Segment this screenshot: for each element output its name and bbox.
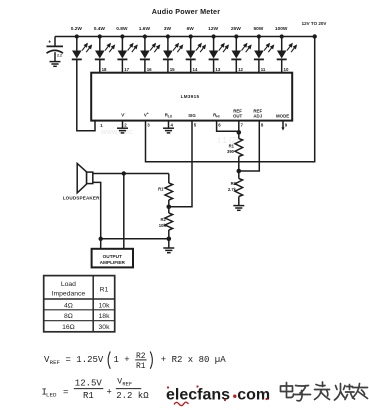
svg-text:8: 8 (261, 123, 264, 128)
wire LED1 cathode to pin 1 (77, 60, 95, 131)
watermark chinese text dian zi fa shao you (281, 382, 368, 401)
pin 7 REF OUT (233, 108, 244, 133)
LED D7 (12W) (208, 26, 228, 73)
svg-text:15: 15 (170, 67, 175, 72)
svg-text:10: 10 (284, 67, 289, 72)
wire V+ supply rail to pin 3 (146, 37, 315, 162)
LED D9 (50W) (253, 26, 273, 73)
svg-text:Load: Load (61, 281, 76, 288)
svg-text:SIG: SIG (188, 113, 196, 118)
svg-text:8Ω: 8Ω (64, 313, 73, 320)
LED D3 (0.8W) (116, 26, 137, 73)
svg-text:16: 16 (147, 67, 152, 72)
formula ILED value label (42, 377, 150, 401)
junction pin 7 node (237, 130, 242, 135)
svg-text:OUTPUT: OUTPUT (103, 254, 122, 259)
wire SIG pin 5 to divider node (169, 121, 192, 207)
resistor R1 390 (227, 133, 243, 171)
pin 6 RHI (213, 112, 221, 127)
wire speaker hot to divider R1 (93, 173, 169, 175)
capacitor C1 2.2uF bypass (47, 37, 64, 62)
svg-text:OUT: OUT (233, 114, 243, 119)
svg-text:18k: 18k (99, 313, 111, 320)
LED D4 (1.6W) (139, 26, 160, 73)
svg-text:LED: LED (46, 392, 57, 399)
svg-text:7: 7 (241, 123, 244, 128)
svg-text:0.2W: 0.2W (71, 26, 83, 32)
LED D5 (3W) (163, 26, 183, 73)
svg-text:www.elec: www.elec (100, 127, 133, 136)
svg-text:R2: R2 (231, 181, 237, 186)
svg-text:=: = (63, 387, 68, 397)
ground capacitor C1 (50, 62, 61, 67)
junction divider node to SIG (167, 205, 172, 210)
svg-text:2.7k: 2.7k (228, 187, 237, 192)
svg-text:MODE: MODE (276, 114, 289, 119)
svg-text:+: + (48, 40, 51, 46)
svg-text:+ R2 x 80 µA: + R2 x 80 µA (161, 355, 226, 365)
svg-text:R2: R2 (160, 217, 166, 222)
wire RHI pin 6 to REF OUT (217, 121, 239, 132)
svg-text:REF: REF (50, 359, 61, 366)
IC U1 LM3915 dot/bar display driver (91, 73, 292, 121)
svg-text:ADJ: ADJ (253, 114, 262, 119)
svg-text:Impedance: Impedance (52, 290, 86, 297)
pin 8 REF ADJ (253, 108, 263, 127)
svg-text:10k: 10k (99, 302, 111, 309)
svg-text:12: 12 (238, 67, 243, 72)
wire LED anode supply rail (55, 36, 315, 38)
table load impedance / R1 (44, 276, 115, 332)
resistor R2 2.7k (228, 171, 243, 205)
svg-text:4: 4 (171, 123, 174, 128)
svg-text:6: 6 (218, 123, 221, 128)
svg-text:LOUDSPEAKER: LOUDSPEAKER (63, 196, 100, 201)
svg-text:REF: REF (122, 381, 132, 387)
wire speaker low side to ground bus (93, 182, 101, 238)
svg-text:AMPLIFIER: AMPLIFIER (100, 260, 126, 265)
LED D10 (100W) (275, 26, 296, 73)
ground R2 2.7k (233, 206, 244, 211)
svg-text:100W: 100W (275, 26, 288, 32)
svg-text:2.2 kΩ: 2.2 kΩ (116, 391, 149, 401)
ground pin 4 (163, 128, 174, 133)
svg-text:com: com (237, 386, 270, 403)
svg-text:10k: 10k (159, 223, 167, 228)
svg-text:16Ω: 16Ω (62, 324, 75, 331)
pin 5 SIG (188, 113, 196, 128)
svg-text:2.2: 2.2 (57, 54, 62, 58)
svg-text:elecfans: elecfans (166, 386, 230, 403)
svg-text:R1: R1 (83, 391, 94, 401)
pin 4 RLO (165, 112, 174, 127)
svg-text:Audio Power Meter: Audio Power Meter (152, 7, 221, 16)
wire ground bus amp to R2 (101, 238, 169, 240)
pin 9 MODE (276, 114, 289, 131)
svg-text:= 1.25V: = 1.25V (66, 355, 104, 365)
svg-text:17: 17 (124, 67, 129, 72)
svg-text:390: 390 (227, 149, 235, 154)
svg-text:0.8W: 0.8W (116, 26, 128, 32)
svg-text:R1: R1 (136, 362, 146, 371)
svg-text:12W: 12W (208, 26, 218, 32)
svg-text:13: 13 (215, 67, 220, 72)
svg-text:14: 14 (193, 67, 198, 72)
ground R2 10k (163, 248, 174, 253)
svg-text:t 1 (2): t 1 (2) (218, 136, 239, 145)
faint watermark ghost center (100, 127, 239, 145)
svg-text:18: 18 (102, 67, 107, 72)
svg-text:12V TO 20V: 12V TO 20V (302, 21, 327, 26)
junction supply rail top (313, 34, 317, 38)
svg-text:3W: 3W (164, 26, 172, 32)
svg-text:R1: R1 (158, 186, 164, 191)
wire REF ADJ pin 8 to R1/R2 node (239, 121, 259, 171)
pin 2 V- (121, 112, 127, 128)
LED D1 (0.2W) (71, 26, 92, 60)
svg-text:LM3915: LM3915 (181, 94, 200, 99)
svg-text:3: 3 (147, 123, 150, 128)
svg-text:6W: 6W (187, 26, 195, 32)
svg-text:12.5V: 12.5V (75, 379, 103, 389)
ground pin 2 (117, 128, 128, 133)
formula VREF value label (44, 352, 226, 371)
svg-text:1 +: 1 + (114, 355, 130, 365)
svg-text:+: + (107, 387, 112, 397)
wire amplifier output to speaker junction (123, 174, 125, 249)
watermark elecfans.com logo (166, 385, 270, 405)
LED D2 (0.4W) (94, 26, 115, 73)
svg-text:9: 9 (285, 123, 288, 128)
svg-text:1.6W: 1.6W (139, 26, 151, 32)
resistor R1 divider (table value) (158, 174, 172, 207)
output amplifier block (92, 249, 133, 268)
svg-text:30k: 30k (99, 324, 111, 331)
svg-text:4Ω: 4Ω (64, 302, 73, 309)
junction amp ground lead (99, 237, 103, 241)
LED D6 (6W) (186, 26, 206, 73)
svg-text:11: 11 (261, 67, 266, 72)
svg-text:0.4W: 0.4W (94, 26, 106, 32)
junction R2 ground bus (167, 237, 172, 242)
LED D8 (25W) (231, 26, 251, 73)
junction speaker/amp output (122, 171, 126, 175)
loudspeaker LS1 (63, 163, 100, 200)
node junction R1-R2-REFADJ (237, 169, 242, 174)
wire amplifier ground lead (100, 239, 102, 249)
resistor R2 10k (159, 207, 173, 248)
pin 3 V+ (144, 112, 150, 128)
svg-text:25W: 25W (231, 26, 241, 32)
svg-text:50W: 50W (253, 26, 263, 32)
svg-text:5: 5 (194, 123, 197, 128)
svg-text:R1: R1 (100, 286, 109, 293)
